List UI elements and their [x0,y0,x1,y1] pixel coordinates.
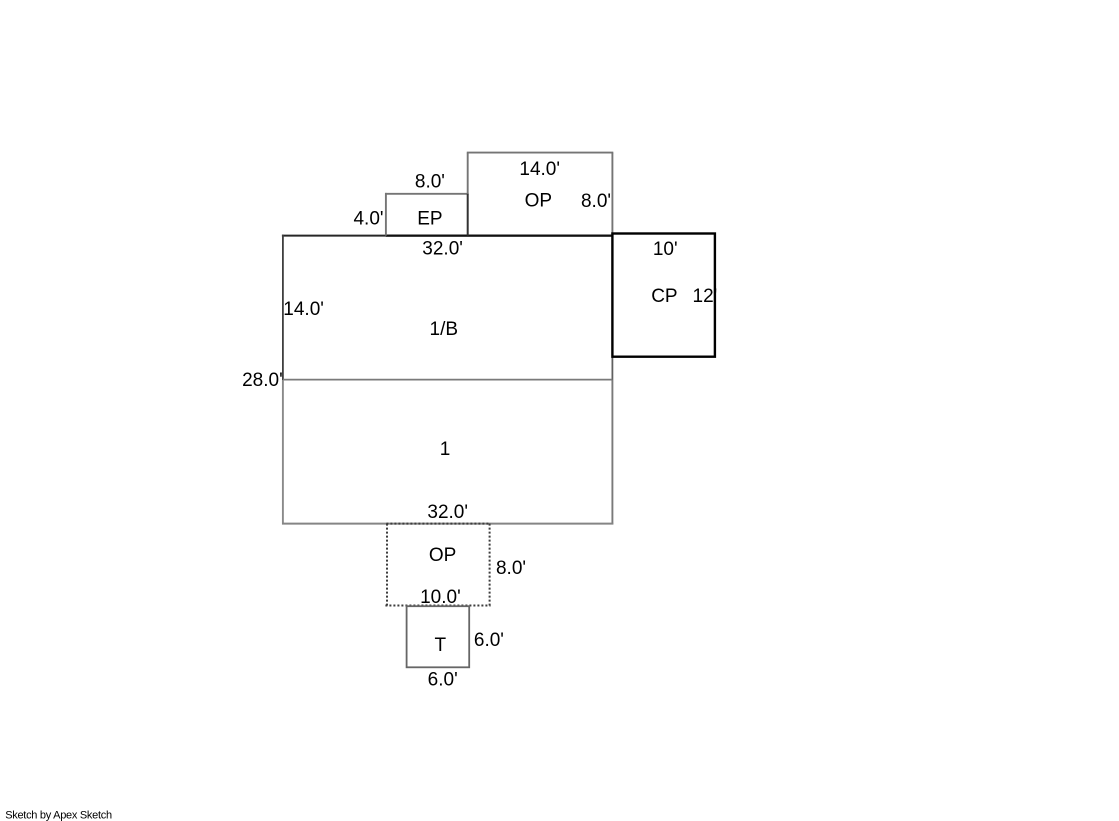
OP top porch box [467,152,614,154]
CP carport box [612,234,715,357]
svg-text:8.0': 8.0' [415,171,445,192]
svg-text:4.0': 4.0' [353,209,383,230]
svg-text:10': 10' [653,239,678,260]
svg-text:14.0': 14.0' [519,159,560,180]
svg-text:14.0': 14.0' [283,299,324,320]
svg-text:1: 1 [440,439,451,460]
wire: area 1 left wall [282,380,284,525]
svg-text:8.0': 8.0' [581,191,611,212]
svg-text:T: T [434,635,446,656]
svg-text:CP: CP [651,286,677,307]
svg-text:28.0': 28.0' [242,370,283,391]
T shed box [407,606,470,667]
wire: shared EP right / OP left wall [467,194,469,236]
svg-text:OP: OP [525,191,552,212]
OP dashed patio box [385,524,490,606]
wire: area 1 right wall [611,380,613,525]
svg-text:12': 12' [693,286,718,307]
svg-text:8.0': 8.0' [496,558,526,579]
svg-text:EP: EP [417,209,442,230]
svg-text:6.0': 6.0' [428,670,458,691]
wire: area 1/B right wall (below CP) [611,236,613,380]
EP porch box [385,193,387,236]
svg-text:32.0': 32.0' [427,502,468,523]
svg-text:OP: OP [429,545,456,566]
wire: area 1/B left wall [282,235,284,380]
wire: area 1/B top wall [282,235,614,237]
svg-text:Sketch by Apex Sketch: Sketch by Apex Sketch [5,810,112,821]
wire: divider between 1/B and 1 [283,379,613,381]
svg-text:32.0': 32.0' [422,239,463,260]
svg-text:6.0': 6.0' [474,630,504,651]
wire: darker overlap of EP/OP bottoms on 1/B top wall [386,235,614,237]
svg-text:1/B: 1/B [430,319,459,340]
svg-text:10.0': 10.0' [420,587,461,608]
wire: area 1 bottom wall [282,523,613,525]
